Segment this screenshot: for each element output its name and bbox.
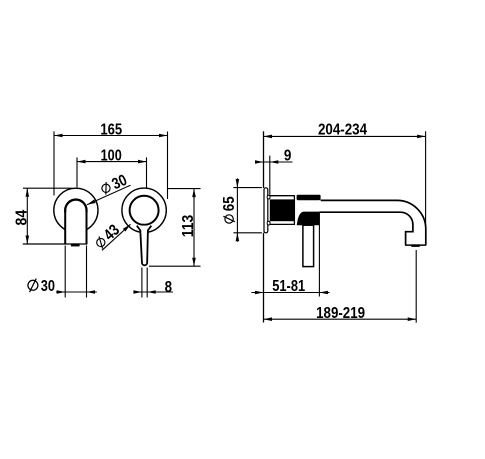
svg-text:65: 65 (221, 196, 238, 211)
leader dia43 handle cap (front view) (92, 222, 130, 252)
leader dia30 spout tube (front view) (87, 172, 131, 205)
spout base ring (side view) (297, 195, 321, 201)
svg-text:204-234: 204-234 (318, 121, 367, 138)
svg-text:165: 165 (100, 121, 122, 138)
dimension 9 escutcheon depth (255, 147, 293, 194)
dimension 100 (centre distance) (77, 148, 147, 188)
handle lever (side view) (303, 225, 314, 266)
mounting collar nubs (side view) (267, 195, 270, 225)
svg-text:189-219: 189-219 (316, 305, 365, 322)
dimension dia30 outlet width (front view) (28, 246, 97, 298)
handle escutcheon outer circle (front view) (122, 188, 166, 232)
spout outlet edge and aerator tick (front view) (23, 243, 88, 246)
mixer body cylinder (side view) (268, 195, 295, 225)
svg-text:8: 8 (165, 279, 173, 296)
dimension 51-81 spout joint offset (251, 213, 329, 297)
handle cap inner circle (front view) (130, 196, 159, 225)
wall line (side view) (263, 131, 265, 322)
svg-text:113: 113 (180, 215, 197, 238)
wall escutcheon (side view) (264, 188, 268, 233)
svg-text:30: 30 (41, 278, 55, 295)
spout tube (side view) (319, 200, 426, 247)
handle lever (front view) (137, 226, 152, 266)
svg-text:84: 84 (13, 210, 30, 226)
dimension 113 (right height) (149, 189, 201, 267)
dimension 8 lever tip width (front view) (133, 268, 173, 298)
spout tube (front view) (65, 200, 86, 244)
dimension 204-234 total reach (264, 121, 426, 225)
svg-text:51-81: 51-81 (272, 278, 305, 295)
dimension 189-219 aerator reach (264, 250, 417, 323)
dimension 84 (left height) (13, 188, 71, 244)
svg-text:9: 9 (284, 147, 292, 164)
dimension 165 (top width) (54, 121, 168, 199)
dimension dia65 escutcheon diameter (221, 178, 262, 241)
elbow joint (side view) (297, 212, 320, 226)
spout escutcheon circle (front view) (54, 188, 98, 232)
svg-text:100: 100 (101, 148, 122, 165)
